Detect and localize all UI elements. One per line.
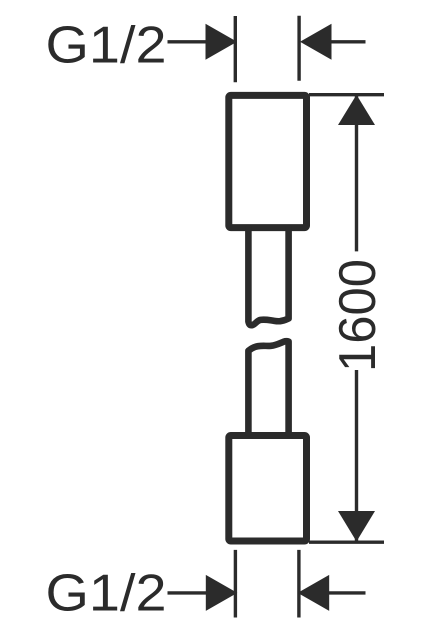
svg-text:G1/2: G1/2 xyxy=(46,17,167,75)
svg-text:1600: 1600 xyxy=(329,259,387,372)
svg-text:G1/2: G1/2 xyxy=(46,565,167,623)
